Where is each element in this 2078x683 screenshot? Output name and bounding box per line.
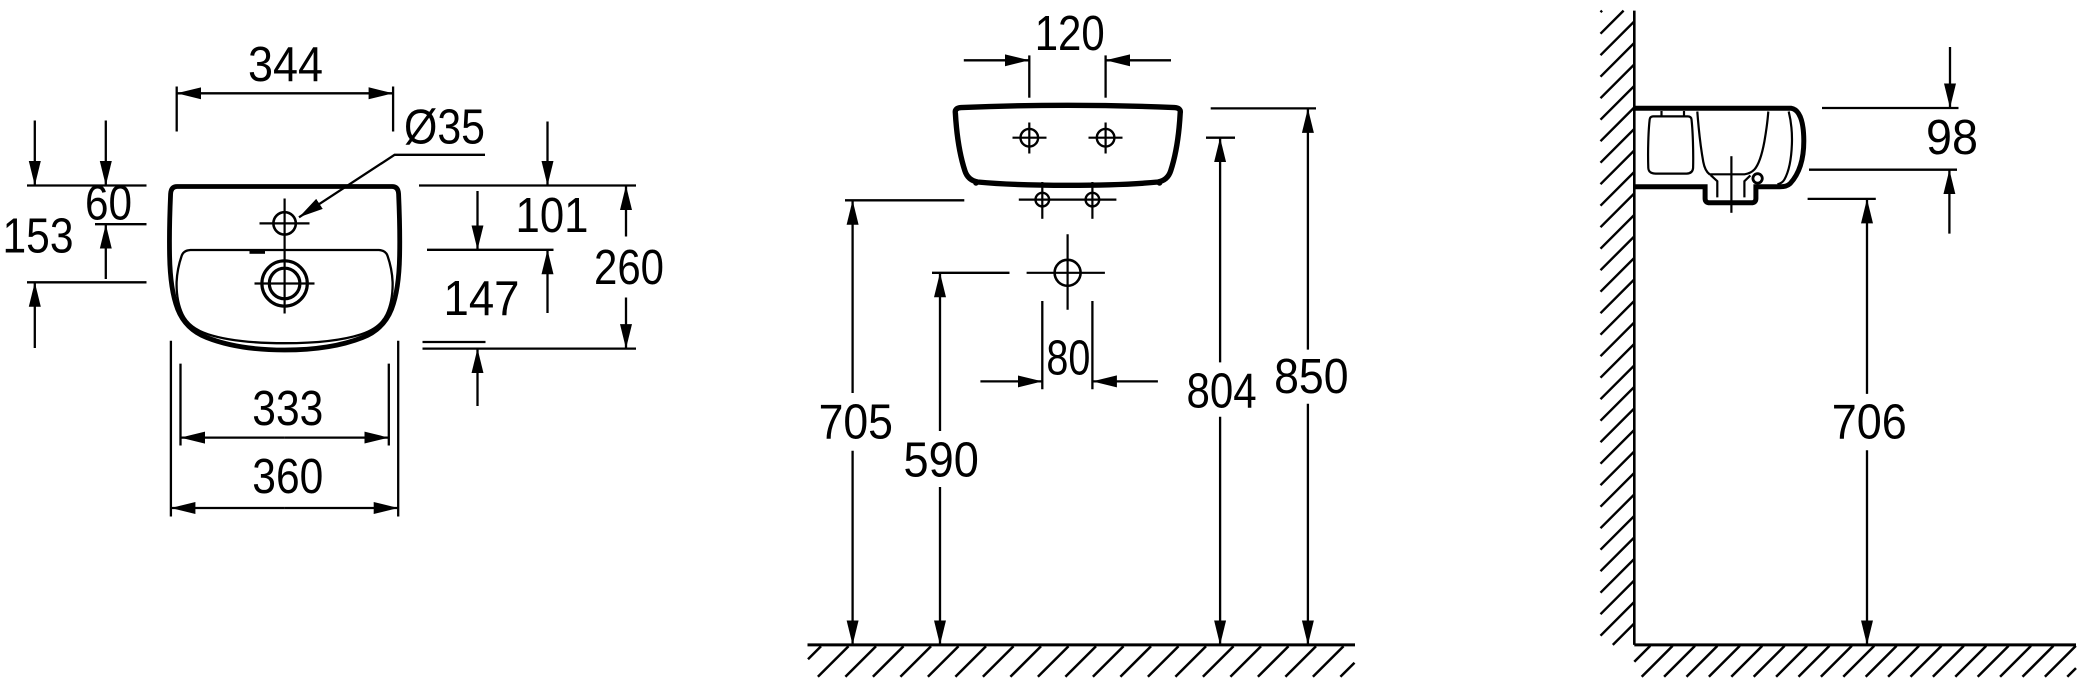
svg-text:98: 98 bbox=[1926, 111, 1978, 165]
svg-text:60: 60 bbox=[85, 177, 132, 231]
dim 804: lower segment with arrow bbox=[1219, 417, 1221, 645]
drain throat left bbox=[1711, 175, 1718, 197]
drain crosshair horizontal bbox=[255, 282, 315, 284]
svg-text:706: 706 bbox=[1832, 395, 1907, 449]
dim 804: upper segment with arrow bbox=[1219, 138, 1221, 363]
overflow mark bbox=[250, 249, 266, 254]
side fixing hole bbox=[1753, 174, 1762, 183]
dim 147: top arrow bbox=[546, 250, 548, 313]
wall hatching bbox=[1601, 11, 1635, 645]
left fixing bolt bbox=[1036, 193, 1050, 207]
dim 101: top arrow bbox=[546, 122, 548, 186]
svg-text:360: 360 bbox=[252, 450, 323, 504]
dim 120: left arrow bbox=[964, 59, 1030, 61]
fixing bolts horizontal line bbox=[1019, 199, 1117, 201]
dim 98: top arrow bbox=[1949, 47, 1951, 108]
dim 333: left extension line bbox=[179, 364, 181, 446]
svg-text:705: 705 bbox=[819, 395, 893, 449]
wall line bbox=[1633, 11, 1636, 645]
dim 360: left extension line bbox=[170, 341, 172, 517]
dim 80: right arrow bbox=[1092, 380, 1158, 382]
dim 590: upper segment with arrow bbox=[939, 273, 941, 431]
svg-text:260: 260 bbox=[594, 241, 664, 295]
svg-text:80: 80 bbox=[1046, 332, 1090, 386]
dim 360: right extension line bbox=[397, 341, 399, 517]
dim 80: left extension line bbox=[1041, 301, 1043, 389]
svg-text:153: 153 bbox=[3, 210, 74, 264]
dim 98: top extension line bbox=[1822, 107, 1959, 109]
drain hole front bbox=[1055, 260, 1081, 286]
dim 706: extension line bbox=[1808, 198, 1876, 200]
left dims: extension line 60 bbox=[95, 223, 147, 225]
dim 60: top arrow bbox=[105, 121, 107, 186]
svg-text:804: 804 bbox=[1187, 364, 1257, 418]
dim 705: upper segment with arrow bbox=[851, 200, 853, 393]
middle floor line bbox=[808, 643, 1356, 646]
left tap hole bbox=[1021, 129, 1039, 147]
dim 60: bottom arrow bbox=[105, 224, 107, 279]
svg-text:101: 101 bbox=[516, 189, 589, 243]
dim 120: left extension line bbox=[1028, 55, 1030, 97]
left dims: extension line top edge bbox=[27, 184, 147, 186]
dim 850: extension line bbox=[1211, 107, 1316, 109]
drain inner circle bbox=[269, 268, 300, 299]
drain outer circle bbox=[262, 261, 307, 306]
dim 850: upper segment with arrow bbox=[1307, 108, 1309, 349]
svg-text:147: 147 bbox=[444, 272, 520, 326]
tap hole circle bbox=[273, 212, 295, 234]
dim 98: bottom extension line bbox=[1809, 169, 1957, 171]
dim 706: lower segment with arrow bbox=[1866, 450, 1868, 645]
right tap hole bbox=[1097, 129, 1115, 147]
dim 101: inner down arrow bbox=[476, 191, 478, 250]
basin front outline bbox=[955, 105, 1180, 185]
left corner lug bbox=[973, 180, 979, 186]
dim 98: bottom arrow bbox=[1948, 170, 1950, 234]
svg-text:333: 333 bbox=[252, 382, 323, 436]
right dims: extension line inner bottom bbox=[423, 341, 486, 343]
dim 706: upper segment with arrow bbox=[1866, 199, 1868, 394]
dim 344: dimension line with arrows bbox=[177, 92, 285, 94]
dim 804: extension tick bbox=[1206, 137, 1235, 139]
dim 260: bottom arrow bbox=[625, 298, 627, 349]
basin side profile outer outline bbox=[1634, 108, 1804, 203]
dim 705: lower segment with arrow bbox=[851, 451, 853, 645]
right fixing bolt bbox=[1086, 193, 1100, 207]
back channel section bbox=[1648, 116, 1693, 173]
drain centerline bbox=[1730, 156, 1732, 213]
svg-text:Ø35: Ø35 bbox=[404, 101, 485, 155]
dim 360: dimension line with arrows bbox=[171, 507, 285, 509]
basin outer rim outline bbox=[169, 187, 399, 351]
dim 333: dimension line with arrows bbox=[181, 436, 285, 438]
basin inner bowl outline bbox=[177, 250, 393, 343]
bowl section curve bbox=[1697, 112, 1768, 175]
drain throat right bbox=[1744, 175, 1750, 197]
left dims: extension line 153 bbox=[27, 281, 147, 283]
right dims: extension line 101 bbox=[427, 249, 554, 251]
svg-text:344: 344 bbox=[248, 38, 323, 92]
channel slot ticks bbox=[1660, 111, 1662, 116]
right dims: extension line top edge bbox=[419, 184, 636, 186]
svg-text:120: 120 bbox=[1035, 7, 1105, 61]
right floor line bbox=[1634, 643, 2076, 646]
svg-text:850: 850 bbox=[1274, 350, 1348, 404]
dim 120: right arrow bbox=[1106, 59, 1171, 61]
dim 590: lower segment with arrow bbox=[939, 487, 941, 645]
dim 850: lower segment with arrow bbox=[1307, 404, 1309, 645]
svg-text:590: 590 bbox=[904, 434, 979, 488]
right floor hatching bbox=[1634, 646, 2076, 677]
centerline vertical through tap hole and drain bbox=[284, 199, 286, 314]
dim 80: left arrow bbox=[980, 380, 1042, 382]
dim 260: top arrow bbox=[625, 186, 627, 237]
right dims: extension line outer bottom bbox=[423, 347, 637, 349]
middle floor hatching bbox=[808, 646, 1355, 677]
bullnose inner line bbox=[1777, 112, 1792, 185]
dim 590: extension line bbox=[932, 272, 1010, 274]
dim 333: right extension line bbox=[388, 364, 390, 446]
dim 153: bottom arrow bbox=[34, 282, 36, 348]
tap hole crosshair horizontal bbox=[260, 222, 310, 224]
dim 705: extension line bbox=[845, 199, 964, 201]
dim 344: extension lines bbox=[176, 87, 178, 132]
dim Ø35: leader with arrow bbox=[299, 155, 485, 218]
right corner lug bbox=[1157, 180, 1163, 186]
dim 80: right extension line bbox=[1091, 301, 1093, 389]
dim 120: right extension line bbox=[1104, 55, 1106, 97]
dim 153: top arrow bbox=[34, 121, 36, 186]
dim 147: bottom arrow bbox=[476, 349, 478, 406]
